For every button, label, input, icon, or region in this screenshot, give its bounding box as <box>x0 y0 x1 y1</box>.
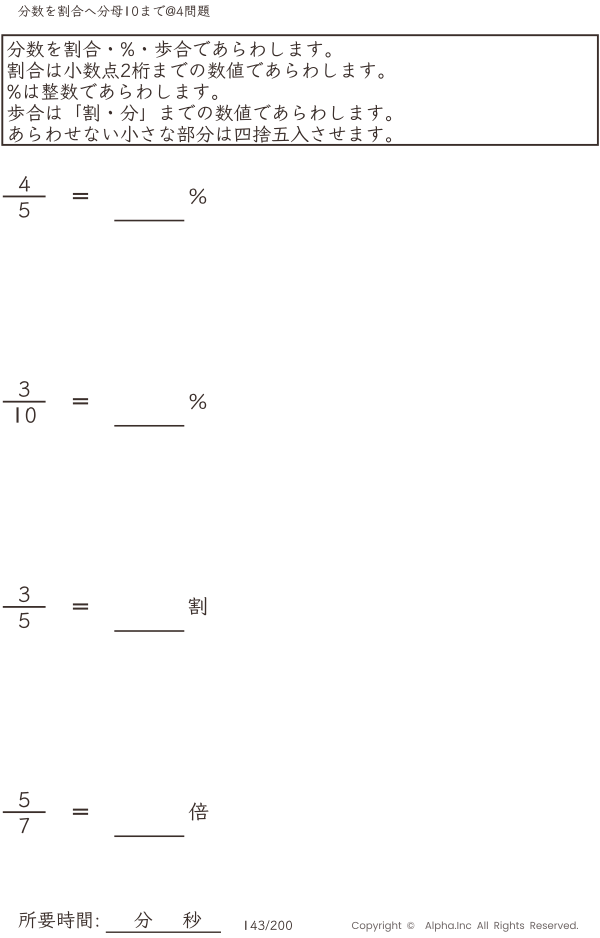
instruction box border <box>2 35 598 145</box>
problem 3: 3/5 = ___ 割 <box>3 586 206 631</box>
header title <box>18 5 210 17</box>
problem 1: 4/5 = ___ % <box>3 176 206 221</box>
problem 2: 3/10 = ___ % <box>3 381 206 426</box>
copyright <box>352 921 578 931</box>
instruction text <box>7 40 391 143</box>
page number 143/200 <box>245 920 292 930</box>
problem 4: 5/7 = ___ 倍 <box>3 792 209 837</box>
bottom: required time label <box>19 911 221 933</box>
